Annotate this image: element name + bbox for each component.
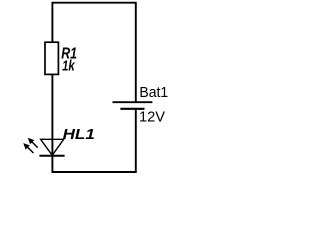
wire bottom loop: resistor bottom, through LED, bottom side, up to battery bottom plate — [52, 74, 135, 172]
svg-text:HL1: HL1 — [63, 126, 95, 143]
LED HL1 cathode bar — [39, 155, 64, 157]
battery Bat1 negative (short) plate — [120, 108, 144, 110]
svg-text:1k: 1k — [62, 59, 75, 75]
wire top loop: left-top-right into battery top plate — [52, 3, 135, 102]
svg-text:Bat1: Bat1 — [139, 85, 168, 101]
resistor R1 body — [45, 42, 58, 74]
battery Bat1 positive (long) plate — [113, 101, 153, 103]
svg-text:12V: 12V — [139, 108, 165, 125]
LED HL1 triangle — [41, 139, 64, 155]
LED HL1 emission arrow 1 — [28, 138, 38, 148]
LED HL1 emission arrow 2 — [23, 143, 33, 153]
